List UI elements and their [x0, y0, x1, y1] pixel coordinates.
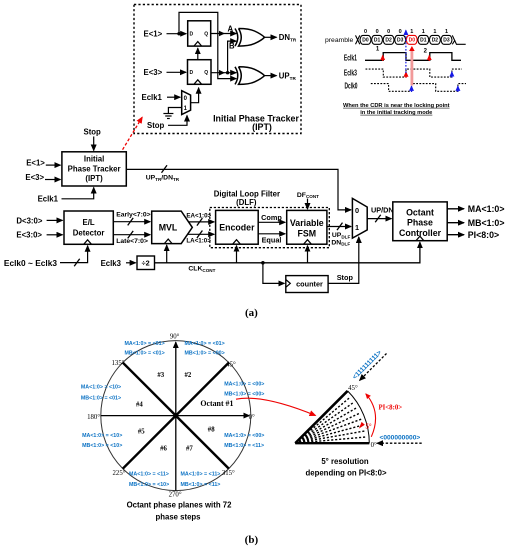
- svg-text:Equal: Equal: [262, 235, 282, 244]
- svg-text:Stop: Stop: [84, 127, 102, 136]
- radius 135 deg (thick): [123, 363, 176, 416]
- wire FSM out to mux 1: [327, 226, 351, 228]
- svg-text:Octant phase planes with 72: Octant phase planes with 72: [127, 501, 233, 510]
- svg-text:Initial: Initial: [84, 155, 104, 164]
- svg-text:MB<1:0>: MB<1:0>: [468, 218, 505, 228]
- svg-text:Encoder: Encoder: [219, 222, 255, 232]
- svg-text:Stop: Stop: [147, 121, 165, 130]
- svg-text:1: 1: [410, 29, 413, 35]
- radius 225 deg (thick): [123, 416, 176, 469]
- svg-text:D1: D1: [374, 38, 381, 44]
- svg-text:E<3>: E<3>: [25, 173, 44, 182]
- svg-text:MA<1:0> = <00>: MA<1:0> = <00>: [224, 382, 264, 388]
- bus slash on Early: [128, 218, 134, 226]
- red tick arrow at 5deg: [359, 422, 365, 429]
- ground: [163, 114, 173, 119]
- wire IPT out UPTR/DNTR to mux 0: [126, 169, 351, 210]
- wire CLKCONT trunk: [155, 242, 420, 263]
- octant circle: [101, 341, 251, 491]
- svg-text:Eclk1: Eclk1: [38, 194, 59, 203]
- wire mux M1 out to U2 clock: [191, 88, 199, 103]
- bus slash on Eclk wire: [74, 259, 80, 267]
- wire out MB: [447, 222, 464, 224]
- wire clock stub to FSM: [307, 246, 309, 263]
- mux M1 (detail): [182, 91, 191, 115]
- node B junction: [226, 71, 229, 74]
- wire mux out to OPC: [367, 218, 391, 220]
- svg-text:MB<1:0> = <01>: MB<1:0> = <01>: [81, 395, 121, 401]
- svg-text:45°: 45°: [226, 362, 236, 369]
- svg-text:D1: D1: [420, 38, 427, 44]
- DLF dashed box: [210, 208, 329, 248]
- svg-text:MA<1:0> = <01>: MA<1:0> = <01>: [185, 341, 225, 347]
- arrowhead on A wire at loop crossing: [219, 31, 225, 37]
- svg-text:Q: Q: [204, 32, 208, 38]
- fan arc: [348, 391, 370, 443]
- svg-text:D3: D3: [443, 38, 450, 44]
- svg-text:(IPT): (IPT): [85, 174, 103, 183]
- svg-text:0: 0: [364, 29, 367, 35]
- svg-text:MVL: MVL: [159, 223, 178, 233]
- flip-flop U1 (top DFF): [188, 21, 211, 46]
- svg-text:0°: 0°: [371, 442, 377, 449]
- svg-text:MA<1:0>: MA<1:0>: [468, 204, 505, 214]
- svg-text:Late<7:0>: Late<7:0>: [116, 238, 148, 245]
- wire Early to MVL: [113, 221, 150, 223]
- svg-text:Eclk0 ~ Eclk3: Eclk0 ~ Eclk3: [4, 258, 57, 268]
- svg-text:MA<1:0> = <01>: MA<1:0> = <01>: [124, 341, 164, 347]
- svg-text:MA<1:0> = <00>: MA<1:0> = <00>: [224, 433, 264, 439]
- U1 clock wedge: [194, 42, 202, 47]
- svg-text:B: B: [229, 41, 235, 50]
- svg-text:<000000000>: <000000000>: [380, 434, 421, 441]
- svg-text:Phase Tracker: Phase Tracker: [68, 164, 121, 173]
- preamble data cells: [360, 35, 452, 44]
- wire Equal: [258, 233, 285, 235]
- svg-text:depending on PI<8:0>: depending on PI<8:0>: [305, 469, 386, 478]
- svg-text:MB<1:0> = <11>: MB<1:0> = <11>: [224, 443, 264, 449]
- svg-text:E<3:0>: E<3:0>: [16, 231, 42, 240]
- svg-text:MB<1:0> = <00>: MB<1:0> = <00>: [224, 391, 264, 397]
- svg-text:A: A: [228, 25, 234, 34]
- svg-text:D2: D2: [385, 38, 392, 44]
- wire out MA: [447, 208, 464, 210]
- red callout curve from circle to fan: [236, 398, 316, 415]
- svg-text:Variable: Variable: [290, 218, 324, 228]
- svg-text:0: 0: [355, 206, 359, 215]
- wire E<1> to IPT: [46, 164, 61, 166]
- svg-text:Eclk3: Eclk3: [344, 68, 357, 77]
- svg-text:1: 1: [355, 223, 359, 232]
- wire Eclk0~3 to E/L bottom: [60, 246, 88, 263]
- wire Comp: [258, 221, 285, 223]
- svg-text:D0: D0: [409, 38, 416, 44]
- svg-text:FSM: FSM: [298, 228, 317, 238]
- wire CLK to counter: [263, 263, 284, 284]
- svg-text:(a): (a): [245, 307, 258, 319]
- wire clock stub to Encoder: [236, 246, 238, 263]
- wire Stop to mux M1 select: [168, 116, 187, 126]
- svg-text:MB<1:0> = <00>: MB<1:0> = <00>: [185, 351, 225, 357]
- svg-text:LA<1:0>: LA<1:0>: [186, 238, 211, 245]
- wire Eclk1 to mux 0: [167, 96, 180, 98]
- svg-text:MA<1:0> = <11>: MA<1:0> = <11>: [129, 472, 169, 478]
- svg-text:Eclk3: Eclk3: [101, 259, 122, 268]
- wire DFCONT into FSM: [307, 199, 309, 209]
- svg-text:E<1>: E<1>: [144, 29, 163, 38]
- svg-text:0: 0: [387, 29, 390, 35]
- svg-text:When the CDR is near the locki: When the CDR is near the locking point: [343, 103, 450, 109]
- radius 45 deg (thick): [176, 363, 229, 416]
- svg-text:0: 0: [376, 29, 379, 35]
- counter clock wedge: [286, 280, 291, 288]
- bus slash on FSM out: [337, 223, 343, 231]
- blue edge arrow on Dclk0 first rise: [411, 86, 413, 92]
- dashed arrow to 45deg tip: [360, 354, 387, 381]
- svg-text:#3: #3: [157, 372, 164, 379]
- fan edge 45deg (thick): [295, 391, 347, 443]
- wire E<3:0> to E/L: [47, 234, 63, 236]
- Encoder clock wedge: [233, 240, 241, 245]
- red arrow tip of sampling band: [409, 46, 415, 51]
- wire X1 out: [265, 36, 277, 38]
- pink sampling band: [411, 49, 414, 86]
- XOR gate X2 (UP): [235, 67, 265, 85]
- wire Eclk1 into IPT bottom: [62, 188, 94, 199]
- bus slash on LA: [197, 231, 203, 239]
- svg-text:(b): (b): [245, 534, 259, 546]
- axis 180-0 with arrow: [101, 415, 250, 417]
- svg-text:#4: #4: [136, 401, 143, 408]
- svg-text:MB<1:0> = <10>: MB<1:0> = <10>: [129, 482, 169, 488]
- wire Eclk3 to div2: [126, 262, 136, 264]
- blue dashed marker line at locking point: [405, 30, 407, 73]
- node on E<1> wire: [177, 32, 180, 35]
- svg-text:0°: 0°: [249, 414, 255, 421]
- blue edge arrow on Dclk0 second rise: [457, 86, 459, 92]
- bus slash on EA: [197, 218, 203, 226]
- wire ground to mux 1: [168, 108, 181, 114]
- svg-text:preamble: preamble: [325, 37, 354, 44]
- svg-text:D0: D0: [362, 38, 369, 44]
- center node: [173, 413, 178, 418]
- wire E<3> to U2.D: [167, 71, 187, 73]
- svg-text:counter: counter: [296, 280, 323, 289]
- svg-text:D2: D2: [432, 38, 439, 44]
- svg-text:135°: 135°: [112, 360, 125, 367]
- wire E<1> to U1.D: [167, 33, 187, 35]
- svg-text:Detector: Detector: [73, 228, 105, 237]
- flip-flop U2 (bottom DFF): [188, 60, 212, 85]
- FSM clock wedge: [304, 240, 312, 245]
- arrowhead on Q2 wire at loop crossing: [219, 70, 225, 76]
- block Variable FSM: [287, 210, 327, 244]
- wire clock stub to MVL: [166, 245, 168, 263]
- red callout arrow to detail box: [115, 117, 142, 162]
- wire U2.Q to XOR2 input: [211, 72, 236, 74]
- waveform Eclk1: [365, 53, 461, 61]
- wire U2 clock chain to U1: [197, 48, 199, 60]
- svg-text:D<3:0>: D<3:0>: [16, 217, 42, 226]
- wire E<1> bypass loop to XOR2: [179, 12, 236, 78]
- svg-text:(IPT): (IPT): [252, 122, 272, 132]
- red edge arrow on Eclk3: [405, 72, 407, 78]
- radius 315 deg (thick): [176, 416, 229, 469]
- svg-text:E<3>: E<3>: [144, 68, 163, 77]
- OPC clock wedge: [416, 236, 424, 241]
- svg-text:90°: 90°: [170, 333, 180, 340]
- svg-text:1: 1: [445, 29, 448, 35]
- svg-text:Octant: Octant: [406, 207, 434, 217]
- svg-text:EA<1:0>: EA<1:0>: [186, 212, 211, 219]
- red edge arrow 1 on Eclk1: [382, 55, 384, 61]
- svg-text:(DLF): (DLF): [236, 198, 257, 207]
- E/L clock wedge: [84, 240, 92, 245]
- svg-text:D3: D3: [397, 38, 404, 44]
- svg-text:D: D: [190, 32, 194, 38]
- svg-text:Early<7:0>: Early<7:0>: [116, 212, 150, 219]
- U2 clock wedge: [194, 80, 202, 85]
- svg-text:MA<1:0> = <10>: MA<1:0> = <10>: [82, 433, 122, 439]
- IPT detail dashed border box: [134, 5, 301, 134]
- block divide-by-2: [137, 256, 155, 270]
- svg-text:Q: Q: [204, 70, 208, 76]
- svg-text:Eclk1: Eclk1: [142, 93, 163, 102]
- wire LA to Encoder: [188, 233, 214, 235]
- svg-text:180°: 180°: [87, 414, 100, 421]
- node on CLK trunk: [261, 261, 265, 265]
- bus slash on Late: [128, 231, 134, 239]
- wire Stop into IPT: [93, 137, 95, 151]
- svg-text:MB<1:0> = <10>: MB<1:0> = <10>: [82, 443, 122, 449]
- svg-text:#2: #2: [185, 372, 192, 379]
- block Encoder: [216, 210, 259, 244]
- svg-text:Eclk1: Eclk1: [344, 54, 357, 63]
- svg-text:Dclk0: Dclk0: [345, 82, 358, 91]
- svg-text:Stop: Stop: [337, 273, 354, 282]
- block counter: [286, 276, 328, 293]
- svg-text:E/L: E/L: [83, 218, 95, 227]
- svg-text:D: D: [190, 70, 194, 76]
- wire EA to Encoder: [188, 221, 214, 223]
- red edge arrow 2 on Eclk1: [428, 55, 430, 61]
- svg-text:270°: 270°: [169, 492, 182, 499]
- svg-text:phase steps: phase steps: [155, 512, 201, 521]
- svg-text:#7: #7: [186, 446, 193, 453]
- mux M2: [352, 198, 367, 238]
- svg-text:MA<1:0> = <10>: MA<1:0> = <10>: [81, 385, 121, 391]
- block IPT: [62, 152, 126, 186]
- fan dashed 5deg rays: [295, 398, 366, 444]
- XOR gate X1 (DN): [235, 29, 265, 47]
- svg-text:Comp: Comp: [261, 213, 282, 222]
- dashed arrow to 0deg corner: [377, 442, 422, 444]
- block Octant Phase Controller: [393, 202, 447, 241]
- blue edge arrow on Eclk3: [451, 72, 453, 78]
- svg-text:315°: 315°: [222, 470, 235, 477]
- wire counter Stop to mux select: [328, 237, 359, 283]
- red PI arc arrow: [366, 394, 376, 437]
- wire D<3:0> to E/L: [47, 219, 63, 221]
- wire node B up to XOR1 input B: [228, 41, 237, 73]
- svg-text:5°: 5°: [366, 423, 372, 430]
- block MVL: [152, 211, 193, 244]
- wire X2 out: [265, 75, 277, 77]
- svg-text:MA<1:0> = <11>: MA<1:0> = <11>: [181, 472, 221, 478]
- svg-text:Octant #1: Octant #1: [200, 399, 233, 408]
- wire E<3> to IPT: [45, 179, 60, 181]
- svg-text:#8: #8: [208, 427, 215, 434]
- svg-text:E<1>: E<1>: [26, 158, 45, 167]
- axis 270-90 with arrow: [175, 342, 177, 491]
- svg-text:MB<1:0> = <11>: MB<1:0> = <11>: [181, 482, 221, 488]
- wire U1.Q to XOR1 input A: [211, 33, 237, 35]
- svg-text:5° resolution: 5° resolution: [321, 457, 369, 466]
- svg-text:PI<8:0>: PI<8:0>: [468, 230, 499, 240]
- data eye lead-in X: [356, 35, 360, 44]
- svg-text:45°: 45°: [348, 385, 358, 392]
- svg-text:UP/DN: UP/DN: [371, 206, 394, 215]
- svg-text:#5: #5: [138, 428, 145, 435]
- wire out PI: [447, 234, 464, 236]
- data eye trail-out: [452, 35, 465, 44]
- svg-text:÷2: ÷2: [142, 259, 150, 268]
- waveform Eclk3: [366, 69, 463, 77]
- MVL clock wedge: [164, 239, 172, 244]
- bus slash on UPTR wire: [162, 165, 168, 173]
- svg-text:225°: 225°: [113, 470, 126, 477]
- svg-text:in the initial tracking mode: in the initial tracking mode: [360, 110, 432, 116]
- block E/L Detector: [64, 211, 113, 244]
- svg-text:Phase: Phase: [407, 218, 433, 228]
- svg-text:#6: #6: [160, 446, 167, 453]
- svg-text:PI<8:0>: PI<8:0>: [379, 405, 403, 412]
- bus slash on UP/DN: [375, 215, 381, 223]
- wire Late to MVL: [113, 234, 150, 236]
- svg-text:1: 1: [433, 29, 436, 35]
- waveform Dclk0: [371, 84, 466, 92]
- fan edge 0deg: [295, 442, 369, 444]
- svg-text:MB<1:0> = <01>: MB<1:0> = <01>: [124, 351, 164, 357]
- svg-text:1: 1: [422, 29, 425, 35]
- svg-text:0: 0: [399, 29, 402, 35]
